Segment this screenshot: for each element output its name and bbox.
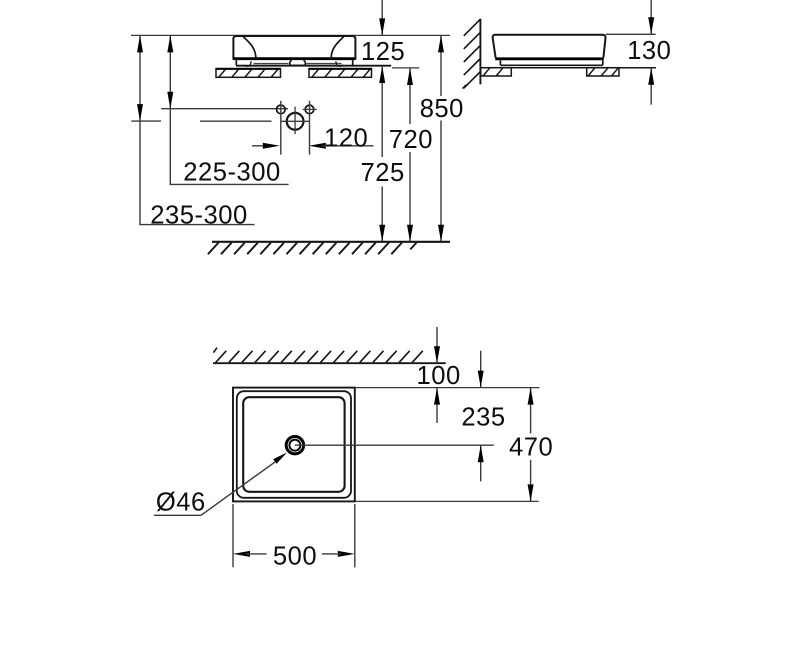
side view: wall line [479,19,481,85]
front view: foot inner ring line left [244,61,289,66]
svg-text:235-300: 235-300 [150,202,247,230]
dimension 120 label [324,124,368,152]
plan view: wall line [213,362,446,364]
front view: spout height reference line [161,108,288,110]
side view: basin outline [493,35,606,58]
side view: basin top extension line [606,33,656,35]
plan view: drain inner circle [289,440,300,451]
dimension 235 line [478,351,484,482]
side view: basin foot [500,60,602,65]
front view: basin foot left edge [235,60,237,65]
side view: countertop hatched section left [481,68,512,76]
svg-text:125: 125 [361,38,405,66]
front view: faucet hole right crosshair [303,108,317,110]
dimension 470 line [528,388,534,502]
front view: faucet hole right circle [305,105,314,114]
svg-text:Ø46: Ø46 [156,488,206,516]
dimension 100 label [417,362,461,390]
dimension 850 label [420,95,464,123]
plan view: basin bottom edge extension [355,500,539,502]
dimension 725 line [379,66,385,242]
svg-text:235: 235 [461,403,505,431]
front view: floor line [212,241,450,243]
front view: countertop left thick top edge [216,68,281,70]
dimension 500 label [273,543,317,571]
svg-text:720: 720 [389,126,433,154]
plan view: basin top edge extension [355,387,540,389]
dimension 470 label [509,434,553,462]
front view: mixer crosshair horizontal [281,120,310,122]
side view: basin thick bottom edge [495,57,604,60]
svg-text:120: 120 [324,124,368,152]
front view: foot inner ring line right [307,61,344,66]
front view: drain trap right arc [304,60,306,65]
plan view: basin rim inner edge [237,391,351,498]
front view: basin inner bowl right curve [331,36,344,58]
dimension 720 label [389,126,433,154]
dimension 235-300 label [150,202,247,230]
dimension 235-300 line [131,35,254,224]
dimension 720 line [407,68,413,242]
front view: countertop hatched section left [216,69,281,78]
svg-text:470: 470 [509,434,553,462]
drain leader line [154,453,287,516]
plan view: wall hatching [213,348,422,363]
dimension 850 line [438,35,444,241]
dimension 725 label [361,159,405,187]
svg-text:725: 725 [361,159,405,187]
dimension 500 line [233,504,355,567]
svg-text:100: 100 [417,362,461,390]
front view: foot bottom / counter extension line [236,65,391,67]
front view: faucet hole left circle [277,105,286,114]
front view: floor hatching [208,243,417,255]
front view: top reference line (basin rim level) [131,34,450,36]
dimension 225-300 line [167,35,288,184]
side view: countertop hatched section right [587,68,619,76]
svg-text:850: 850 [420,95,464,123]
dimension 130 line [648,0,654,105]
svg-text:500: 500 [273,543,317,571]
front view: countertop right thick top edge [309,68,372,70]
front view: basin outer outline [233,36,355,60]
front view: basin thick bottom edge [233,57,355,60]
plan view: bowl inner edge [243,397,344,492]
front view: basin foot right edge [352,60,354,65]
svg-text:225-300: 225-300 [183,158,280,186]
dimension 130 label [627,37,671,65]
front view: countertop hatched section right [309,69,372,78]
side view: wall hatching [463,19,481,88]
front view: mixer level reference line [200,120,272,122]
front view: drain trap left arc [290,60,292,65]
dimension 100 line [434,327,440,423]
svg-text:130: 130 [627,37,671,65]
dimension 125 line [379,0,385,35]
front view: basin inner bowl left curve [243,36,256,58]
drain diameter label Ø46 [156,488,206,516]
front view: countertop level extension line (for 720) [392,67,419,69]
plan view: basin outer square [233,388,355,502]
dimension 120 line [252,101,374,155]
dimension 125 label [361,38,405,66]
front view: mixer crosshair vertical [294,107,296,134]
front view: drain trap bottom line [291,64,305,66]
dimension 225-300 label [183,158,280,186]
dimension 235 label [461,403,505,431]
plan view: drain centre line [295,444,494,446]
side view: countertop line [480,67,656,69]
front view: mixer body circle [287,113,304,130]
plan view: drain outer circle [286,437,303,454]
